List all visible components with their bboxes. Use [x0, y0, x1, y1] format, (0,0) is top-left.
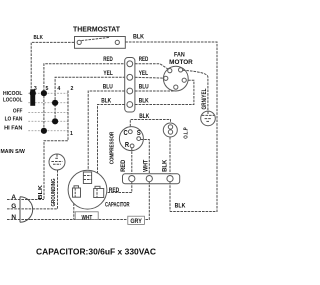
svg-text:BLK: BLK — [38, 185, 44, 200]
switch column 4 / wire YEL to connector — [55, 77, 125, 121]
wire N — [7, 219, 30, 221]
fan motor terminal L — [164, 76, 168, 80]
fan motor M1 — [163, 66, 188, 91]
ground fan motor — [201, 111, 216, 126]
terminal strip — [123, 174, 180, 184]
connector pin 2 — [127, 74, 133, 80]
wire WHT neutral plug N to strip pin2 — [30, 182, 149, 220]
svg-text:BLK: BLK — [175, 202, 186, 209]
compressor terminal R — [130, 144, 134, 148]
ground chassis left — [49, 154, 65, 170]
switch column 5 / wire RED to connector — [44, 64, 125, 131]
thermostat box — [75, 37, 126, 49]
svg-text:WHT: WHT — [144, 159, 150, 171]
svg-text:N: N — [11, 214, 16, 221]
svg-text:YEL: YEL — [103, 70, 112, 77]
svg-text:CAPACITOR:30/6uF x 330VAC: CAPACITOR:30/6uF x 330VAC — [36, 246, 156, 256]
wire BLK OLP to strip — [169, 137, 171, 176]
wire BLU connector to fan motor — [135, 89, 176, 91]
wire WHT compressor S to strip — [141, 140, 150, 176]
svg-text:WHT: WHT — [82, 214, 93, 221]
wire GRN/YEL fan motor to ground — [183, 70, 208, 111]
svg-text:GRN/YEL: GRN/YEL — [202, 88, 208, 109]
wire BLK switch to thermostat — [31, 42, 74, 88]
thermostat switch arm — [81, 37, 110, 40]
svg-text:HICOOL: HICOOL — [3, 91, 23, 97]
svg-text:BLK: BLK — [139, 113, 149, 120]
svg-text:LO FAN: LO FAN — [5, 117, 23, 123]
svg-text:HI FAN: HI FAN — [4, 125, 23, 131]
wire BLK thermostat to right edge down to bottom — [125, 42, 217, 212]
svg-text:COMPRESSOR: COMPRESSOR — [109, 132, 115, 165]
compressor terminal C — [128, 130, 132, 134]
connector pin 3 — [127, 88, 133, 94]
wire grounding — [57, 170, 59, 209]
compressor motor — [119, 127, 143, 151]
overload protector O.L.P — [163, 123, 177, 137]
switch contact dots — [30, 90, 36, 96]
svg-text:4: 4 — [57, 86, 60, 92]
svg-text:BLU: BLU — [139, 84, 149, 91]
terminal strip pin 3 — [167, 176, 173, 182]
wire A — [7, 199, 28, 201]
capacitor left tab — [73, 186, 81, 197]
label GRY box — [128, 216, 145, 225]
label WHT box — [75, 212, 98, 222]
wire RED compressor R to strip — [131, 148, 133, 176]
wire BLU connector to capacitor top — [88, 91, 125, 172]
power plug — [20, 197, 33, 222]
svg-text:FAN: FAN — [174, 52, 185, 59]
svg-text:O.L.P: O.L.P — [184, 127, 190, 138]
svg-text:RED: RED — [139, 56, 149, 63]
rotary switch terminal bar L — [30, 89, 35, 106]
svg-text:GROUNDING: GROUNDING — [51, 179, 57, 207]
svg-text:C: C — [124, 130, 128, 137]
svg-text:G: G — [11, 203, 16, 210]
connector pin 4 — [127, 102, 133, 108]
thermostat contact right — [115, 40, 119, 44]
svg-text:RED: RED — [103, 56, 113, 63]
svg-text:BLK: BLK — [101, 98, 111, 105]
terminal strip pin 1 — [129, 176, 135, 182]
svg-text:YEL: YEL — [139, 70, 148, 77]
capacitor top tab — [83, 172, 91, 184]
thermostat contact left — [77, 40, 81, 44]
svg-text:BLK: BLK — [133, 33, 144, 40]
svg-text:BLK: BLK — [162, 159, 168, 172]
compressor terminal S — [137, 137, 141, 141]
connector strip — [125, 58, 135, 113]
svg-text:2: 2 — [70, 86, 73, 92]
wire G — [7, 208, 33, 210]
terminal strip pin 2 — [146, 176, 152, 182]
fan motor terminal TR — [179, 68, 183, 72]
svg-text:A: A — [11, 194, 16, 201]
svg-text:BLU: BLU — [103, 84, 113, 91]
switch column 2 / wire BLK down to plug — [44, 91, 68, 200]
svg-text:MOTOR: MOTOR — [169, 59, 193, 66]
svg-text:3: 3 — [34, 86, 37, 92]
wire BLK connector to capacitor right — [98, 105, 125, 174]
wire BLK connector to fan motor — [135, 80, 194, 104]
wire RED connector to fan motor — [135, 64, 168, 69]
wire BLK strip down to right loop — [169, 182, 171, 212]
svg-text:RED: RED — [121, 159, 127, 172]
svg-text:OFF: OFF — [13, 109, 23, 115]
wire YEL connector to fan motor — [135, 76, 164, 79]
wire RED strip to capacitor — [104, 182, 132, 193]
svg-text:5: 5 — [46, 86, 49, 92]
svg-text:BLK: BLK — [139, 98, 149, 105]
fan motor terminal TL — [168, 69, 172, 73]
fan motor terminal B — [174, 85, 178, 89]
svg-text:GRY: GRY — [130, 218, 142, 225]
svg-text:THERMOSTAT: THERMOSTAT — [73, 27, 121, 34]
connector pin 1 — [127, 61, 133, 67]
svg-text:LOCOOL: LOCOOL — [3, 97, 23, 103]
rotary switch grid rows — [28, 92, 68, 94]
svg-text:BLK: BLK — [34, 35, 43, 41]
svg-text:RED: RED — [109, 187, 120, 194]
svg-text:MAIN S/W: MAIN S/W — [1, 149, 26, 155]
fan motor terminal R — [182, 78, 186, 82]
svg-text:1: 1 — [70, 131, 73, 137]
wire BLK compressor C to OLP — [130, 120, 170, 131]
capacitor C1 — [68, 170, 107, 209]
svg-text:S: S — [137, 130, 141, 137]
capacitor right tab — [94, 186, 104, 197]
svg-text:CAPACITOR: CAPACITOR — [105, 201, 130, 208]
svg-text:R: R — [125, 142, 129, 149]
wire WHT capacitor bottom stub — [73, 203, 75, 219]
